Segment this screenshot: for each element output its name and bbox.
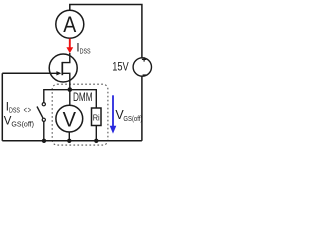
wire: branch from switch over junction to Ri — [44, 90, 97, 108]
V2 plus mark — [142, 57, 146, 61]
svg-text:15V: 15V — [112, 61, 129, 73]
resistor Ri box — [92, 108, 102, 126]
V2 minus mark — [143, 74, 147, 76]
DMM enclosure dashed box — [52, 84, 108, 145]
svg-text:Ri: Ri — [93, 112, 100, 122]
Q1 gate arrowhead — [56, 71, 61, 75]
Q1 gate wire inside circle — [49, 72, 58, 74]
ammeter A1 circle — [56, 10, 84, 38]
Q1 channel bar — [61, 62, 63, 75]
svg-text:GS(off): GS(off) — [123, 114, 142, 123]
switch S1 lower terminal — [42, 118, 45, 121]
switch S1 blade — [37, 107, 43, 118]
wire: voltmeter bottom lead — [68, 132, 70, 141]
wire: Ri bottom lead — [95, 126, 97, 141]
svg-text:V: V — [63, 108, 76, 131]
wire: right rail below 15V source down to bottom-right corner — [141, 76, 143, 141]
node: DMM top junction dot — [68, 87, 73, 92]
svg-text:DMM: DMM — [73, 92, 93, 104]
wire: top wire from ammeter to right rail — [70, 5, 142, 59]
red current arrow IDSS — [69, 39, 71, 49]
wire: gate wire to JFET — [2, 72, 57, 74]
transistor Q1 JFET circle — [49, 54, 77, 82]
svg-text:GS(off): GS(off) — [11, 119, 34, 128]
Q1 source lead — [62, 73, 70, 105]
svg-text:DSS: DSS — [9, 106, 20, 115]
wire: switch to bottom wire — [43, 121, 45, 140]
svg-text:DSS: DSS — [80, 47, 91, 56]
svg-text:>: > — [28, 105, 32, 116]
node: Ri bottom junction dot — [94, 139, 98, 143]
switch S1 upper terminal — [42, 103, 45, 106]
blue voltage arrow VGS(off) — [112, 95, 114, 127]
voltmeter V1 circle — [56, 105, 83, 132]
voltage source V2 15V circle — [133, 58, 151, 76]
node: voltmeter bottom junction dot — [67, 139, 71, 143]
wire: left rail — [1, 73, 3, 141]
wire: bottom wire — [2, 140, 142, 142]
node: switch bottom junction dot — [42, 139, 46, 143]
Q1 drain lead — [62, 53, 70, 63]
svg-text:A: A — [63, 12, 76, 37]
